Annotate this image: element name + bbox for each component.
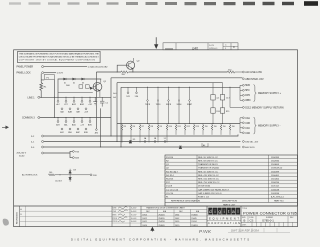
svg-text:9DC8: 9DC8: [166, 104, 172, 106]
svg-text:1300401: 1300401: [271, 175, 280, 177]
svg-text:RES. 1K 10W 5% CC: RES. 1K 10W 5% CC: [198, 171, 218, 173]
svg-text:D1-D8: D1-D8: [166, 186, 173, 188]
wire Q1 emitter: [99, 91, 101, 98]
svg-text:CIRCUITS ARE PROPRIETARY IN NA: CIRCUITS ARE PROPRIETARY IN NATURE AND S…: [19, 56, 100, 59]
svg-text:1302840: 1302840: [271, 161, 280, 163]
transistor Q2: [127, 61, 135, 69]
svg-text:C1, C15,C16: C1, C15,C16: [166, 189, 179, 191]
svg-text:A90: A90: [95, 132, 98, 135]
svg-text:A5R: A5R: [80, 103, 84, 106]
svg-text:DEC2: DEC2: [142, 218, 147, 220]
node D30: [90, 174, 92, 176]
node C4A: [243, 117, 245, 119]
title block top line: [14, 205, 298, 207]
svg-text:C4A: C4A: [245, 117, 250, 120]
svg-text:RES. 150 10W 5% CC: RES. 150 10W 5% CC: [198, 179, 219, 181]
svg-text:RES. 1K 10W 5% CC: RES. 1K 10W 5% CC: [198, 157, 218, 159]
svg-text:R6: R6: [133, 126, 135, 128]
svg-text:P!NK: P!NK: [199, 229, 212, 234]
svg-text:A5P: A5P: [76, 131, 80, 134]
svg-text:7DC8: 7DC8: [145, 104, 151, 106]
left margin arrow: [2, 126, 8, 129]
svg-text:9-5-69: 9-5-69: [131, 218, 136, 220]
svg-text:G785-0-1: G785-0-1: [262, 219, 274, 223]
svg-text:COMMON 3: COMMON 3: [22, 118, 35, 120]
connector stub box: [202, 143, 208, 147]
svg-text:TRANSISTOR & DIODE CONVERSION: TRANSISTOR & DIODE CONVERSION CHART: [146, 207, 186, 210]
svg-text:D312 MEMORY SUPPLY RETURN: D312 MEMORY SUPPLY RETURN: [245, 106, 284, 109]
svg-text:150: 150: [223, 126, 226, 128]
svg-text:1300399: 1300399: [271, 171, 280, 173]
svg-text:PANEL POWER: PANEL POWER: [17, 66, 34, 69]
brace memory supply +: [253, 85, 256, 102]
wire -15V bus: [111, 78, 242, 136]
svg-text:5P0: 5P0: [245, 89, 250, 92]
svg-text:RES. 68 10W 5% CC: RES. 68 10W 5% CC: [198, 161, 218, 163]
svg-text:5D4: 5D4: [135, 96, 138, 98]
wire line-low bus: [96, 71, 227, 73]
svg-text:D3: D3: [82, 83, 84, 85]
svg-text:g: g: [218, 209, 221, 214]
wire left drop: [95, 72, 97, 129]
svg-text:2N4441: 2N4441: [158, 214, 164, 216]
node 5P0: [243, 89, 245, 91]
svg-text:A-PL-G785-0-1: A-PL-G785-0-1: [271, 196, 284, 199]
svg-text:RES. 470 10W 5% CC: RES. 470 10W 5% CC: [198, 175, 219, 177]
svg-text:TRANSISTOR 2N4441: TRANSISTOR 2N4441: [198, 167, 220, 170]
svg-text:A-0: A-0: [113, 96, 116, 99]
node AB INTER -15V: [243, 78, 245, 80]
svg-text:1301402: 1301402: [271, 179, 280, 181]
svg-text:DP0: DP0: [245, 94, 250, 97]
diode D3: [82, 78, 85, 80]
svg-text:+5R: +5R: [88, 104, 92, 106]
node AC LINE LOW: [243, 71, 245, 73]
svg-text:9-8-69: 9-8-69: [131, 221, 136, 223]
svg-text:C4.7: C4.7: [226, 98, 230, 100]
wire inner bus: [117, 83, 223, 142]
svg-text:R11: R11: [178, 126, 181, 128]
svg-text:d: d: [209, 209, 212, 214]
svg-text:R1,R16: R1,R16: [166, 157, 174, 159]
transistor diode conversion chart: [140, 206, 142, 227]
svg-text:PANEL LOCK: PANEL LOCK: [17, 72, 32, 75]
contact box K2: [85, 85, 89, 88]
svg-text:DESCRIPTION: DESCRIPTION: [222, 200, 237, 202]
svg-text:DIST.: DIST.: [242, 225, 247, 227]
svg-text:B3U: B3U: [84, 132, 88, 134]
revisions strip: [19, 206, 21, 227]
svg-text:D664: D664: [175, 214, 179, 216]
svg-text:R12: R12: [187, 126, 190, 128]
wire mem+ bus: [121, 87, 240, 147]
svg-text:AC INTERLOCK: AC INTERLOCK: [22, 174, 38, 177]
svg-text:150: 150: [232, 126, 235, 128]
svg-text:R15: R15: [226, 111, 229, 113]
diode D10: [179, 146, 182, 149]
svg-text:a: a: [232, 209, 235, 214]
handwritten signatures: [118, 207, 128, 222]
svg-text:1539049-00: 1539049-00: [271, 168, 283, 170]
resistor R15 column: [222, 83, 224, 124]
svg-text:TRANSISTOR DEC3: TRANSISTOR DEC3: [198, 163, 218, 166]
fuse F1: [44, 75, 54, 80]
svg-text:WB0: WB0: [245, 99, 251, 102]
mem- output tree: [240, 118, 242, 133]
svg-text:C4C: C4C: [245, 127, 250, 130]
svg-text:1300399: 1300399: [271, 157, 280, 159]
capacitor C1: [100, 97, 104, 106]
resistor R2: [121, 71, 128, 73]
svg-text:DEC4: DEC4: [142, 225, 147, 227]
transistor Q1: [93, 82, 102, 91]
brace memory supply -: [253, 117, 256, 134]
svg-text:C2-C14: C2-C14: [166, 193, 174, 195]
notice box: [18, 51, 101, 62]
svg-text:2N4258: 2N4258: [158, 221, 164, 223]
svg-text:REVISIONS: REVISIONS: [17, 212, 19, 224]
diode D9: [129, 141, 132, 144]
diode D2: [73, 78, 76, 80]
diode D11: [69, 169, 72, 175]
wire fuse bottom: [41, 79, 54, 117]
svg-text:1003246: 1003246: [271, 193, 280, 195]
mem+ output tree: [240, 85, 242, 100]
svg-text:9DA7: 9DA7: [187, 103, 193, 106]
drawing border frame: [14, 50, 298, 227]
wire base bus: [58, 92, 93, 94]
node WB0: [243, 99, 245, 101]
parts list rows text: [166, 157, 284, 199]
svg-text:D84 5BL -15V: D84 5BL -15V: [245, 142, 259, 144]
svg-text:4-5: 4-5: [216, 98, 219, 100]
svg-text:B: B: [244, 219, 246, 223]
svg-text:1000048: 1000048: [271, 189, 280, 191]
pin stubs on mem+ bus: [127, 87, 137, 93]
svg-text:D8: D8: [73, 169, 75, 171]
svg-text:5C8: 5C8: [126, 96, 129, 98]
left margin smudge: [3, 219, 9, 226]
svg-text:R5: R5: [124, 126, 126, 128]
svg-text:C14 6.8: C14 6.8: [55, 181, 62, 183]
svg-text:9-4-69: 9-4-69: [131, 210, 136, 213]
wire COMMON bus: [40, 117, 111, 119]
node 5M0: [243, 84, 245, 86]
pin row B under COMMON: [61, 128, 87, 130]
pins on bus: [144, 141, 146, 143]
node memory supply return: [243, 107, 245, 109]
ground stub: [93, 97, 97, 105]
parts list header row: [171, 199, 284, 206]
svg-text:2N3055: 2N3055: [158, 218, 164, 220]
wire -15V return bus: [44, 141, 241, 143]
signature block: [111, 206, 113, 227]
pin row A under COMMON: [57, 118, 91, 123]
svg-text:AB0 INTER -15V: AB0 INTER -15V: [245, 78, 264, 81]
svg-text:D-CS: D-CS: [209, 45, 215, 47]
contact box K1: [79, 85, 83, 88]
svg-text:TITLE: TITLE: [242, 208, 248, 210]
svg-text:A10 5U1D: A10 5U1D: [245, 146, 255, 149]
wire return branch: [230, 87, 242, 107]
svg-text:208-230 V: 208-230 V: [17, 152, 27, 154]
resistor R17: [49, 174, 91, 176]
svg-text:1N3653: 1N3653: [191, 225, 197, 227]
svg-text:R7: R7: [142, 126, 144, 128]
revision status strip above title: [163, 43, 238, 50]
svg-text:1N3606: 1N3606: [191, 214, 197, 216]
svg-text:D659: D659: [175, 221, 179, 223]
svg-text:DEC1: DEC1: [142, 221, 147, 223]
svg-text:MEMORY SUPPLY -: MEMORY SUPPLY -: [258, 124, 281, 127]
svg-text:2N3009: 2N3009: [158, 225, 164, 227]
svg-text:R4, R14: R4, R14: [166, 175, 174, 177]
svg-text:DIODE D664: DIODE D664: [198, 186, 211, 188]
svg-text:D670: D670: [175, 225, 179, 227]
svg-text:A4: A4: [203, 144, 205, 147]
svg-text:A10 LINE LOW: A10 LINE LOW: [245, 71, 262, 74]
wire row1 bus: [44, 134, 238, 136]
junction dots LINE1 taps: [58, 97, 91, 118]
svg-text:LINE 1: LINE 1: [28, 97, 36, 99]
wire Q2 emitter: [132, 69, 134, 72]
node C4B: [243, 122, 245, 124]
svg-text:1105114: 1105114: [271, 186, 280, 188]
svg-text:9-5-69: 9-5-69: [131, 214, 136, 216]
parts list table: [165, 155, 298, 206]
diode D1: [64, 78, 67, 80]
wire Q1 collector: [99, 79, 102, 83]
svg-text:DEC3: DEC3: [142, 214, 147, 216]
svg-text:A5U: A5U: [72, 123, 76, 126]
DEC logo block: [206, 206, 208, 227]
column wires to mem- bus: [148, 87, 190, 123]
diode D12: [69, 175, 72, 182]
pin at left drop end: [96, 129, 98, 131]
svg-text:MEMORY SUPPLY +: MEMORY SUPPLY +: [258, 92, 282, 95]
svg-text:PROJ: PROJ: [113, 218, 118, 220]
wire lock rail: [40, 74, 42, 83]
wire cap drop: [100, 108, 102, 147]
svg-text:D9: D9: [133, 139, 135, 141]
wire panel lock: [44, 72, 56, 74]
resistor R16: [228, 71, 243, 73]
svg-text:REFERENCE DESIGNATION: REFERENCE DESIGNATION: [171, 199, 200, 202]
svg-text:FUSE 1 1/4: FUSE 1 1/4: [198, 197, 210, 199]
down arrow above frame: [155, 37, 158, 48]
svg-text:R5-R13: R5-R13: [166, 179, 174, 181]
svg-text:150: 150: [214, 126, 217, 128]
svg-text:A9U: A9U: [88, 123, 92, 126]
wire diode chain rail: [58, 79, 101, 97]
junction dots lower buses: [100, 146, 101, 147]
wire ground bus: [44, 146, 241, 148]
node DP0: [243, 94, 245, 96]
size code number row: [241, 215, 298, 217]
film sprocket marks (top edge): [9, 2, 21, 4]
svg-text:50-60: 50-60: [19, 156, 25, 158]
wire LINE1 bus: [40, 96, 111, 98]
svg-text:150: 150: [205, 126, 208, 128]
svg-text:R14: R14: [216, 111, 219, 113]
svg-text:COPYRIGHT 1969 BY DIGITAL EQU: COPYRIGHT 1969 BY DIGITAL EQUIPMENT CORP…: [19, 59, 96, 62]
wire Q2 base: [117, 65, 129, 72]
svg-text:PROD: PROD: [113, 221, 119, 223]
svg-text:A1R: A1R: [72, 103, 76, 106]
svg-text:R10: R10: [169, 126, 172, 128]
svg-text:D-673: D-673: [57, 73, 64, 75]
svg-text:100: 100: [49, 172, 52, 174]
svg-text:CS: CS: [250, 219, 254, 223]
svg-text:CAP. 6.8MFD 35V 10% S: CAP. 6.8MFD 35V 10% S: [198, 192, 222, 195]
resistor R14 column: [212, 83, 214, 124]
svg-text:i: i: [224, 209, 225, 214]
svg-text:1N645: 1N645: [191, 218, 196, 220]
svg-text:D662: D662: [175, 218, 179, 220]
svg-text:1300294: 1300294: [271, 182, 280, 184]
svg-text:R13: R13: [196, 126, 199, 128]
diode D4: [90, 87, 93, 89]
svg-text:A+0: A+0: [113, 92, 116, 95]
wire mem- bus: [117, 123, 240, 125]
svg-text:1503609: 1503609: [271, 164, 280, 166]
node C4D: [243, 132, 245, 134]
wire Q2 collector: [132, 58, 135, 62]
svg-text:5M0: 5M0: [245, 84, 250, 87]
svg-text:CAP. 20MFD 50V HI-REL ELECT: CAP. 20MFD 50V HI-REL ELECT: [198, 188, 230, 191]
svg-text:DWT 3LW R3F 1V35A: DWT 3LW R3F 1V35A: [231, 229, 259, 233]
svg-text:C4D: C4D: [245, 132, 250, 135]
pin row B under LINE1: [61, 108, 87, 110]
svg-text:POWER CONNECTOR G785: POWER CONNECTOR G785: [243, 211, 298, 216]
resistors R5-R13 below mem- bus: [121, 124, 231, 143]
svg-text:EQUIPMENT: EQUIPMENT: [209, 216, 239, 220]
up arrow below frame: [151, 227, 154, 231]
svg-text:9-4-69: 9-4-69: [131, 207, 136, 210]
aux pins near rail: [113, 92, 116, 99]
svg-text:A4B: A4B: [68, 111, 72, 114]
svg-text:C4B: C4B: [245, 122, 250, 125]
svg-text:R8: R8: [151, 126, 153, 128]
resistor R1: [40, 83, 43, 98]
svg-text:PART NO.: PART NO.: [274, 199, 284, 202]
svg-text:CORPORATION: CORPORATION: [208, 221, 240, 225]
svg-text:R: R: [233, 46, 235, 49]
wire panel power: [44, 66, 87, 68]
svg-text:R3, R15 ALT: R3, R15 ALT: [166, 170, 178, 173]
svg-text:i: i: [214, 209, 215, 214]
svg-text:1N914: 1N914: [191, 221, 196, 223]
pin row A under LINE1: [57, 97, 91, 102]
wire 208V split: [44, 151, 73, 157]
svg-text:D2: D2: [73, 83, 75, 85]
node C4C: [243, 127, 245, 129]
diode chain value labels: [64, 83, 84, 85]
svg-text:RES. 750 1/4W 5% CC: RES. 750 1/4W 5% CC: [198, 182, 220, 184]
svg-text:l: l: [237, 209, 238, 214]
svg-text:D-5A2,5X3,4X5,5B2: D-5A2,5X3,4X5,5B2: [88, 66, 108, 69]
svg-text:THIS SCHEMATIC IS FURNISHED ON: THIS SCHEMATIC IS FURNISHED ONLY FOR TES…: [19, 53, 100, 56]
svg-text:R9: R9: [160, 126, 162, 128]
